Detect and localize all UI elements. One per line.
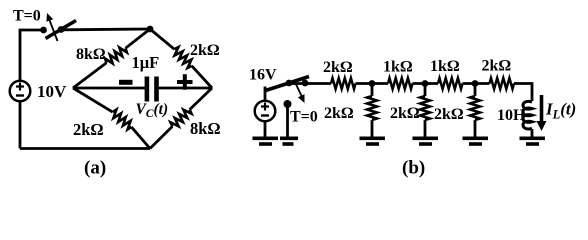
wire arm bottom-left: [73, 88, 150, 149]
switch S2 (b) blade: [264, 77, 309, 92]
wire top rail segment 2: [356, 82, 389, 85]
wire source bottom stub: [264, 121, 267, 137]
wire arm bottom-right: [150, 88, 212, 149]
wire arm top-left: [73, 29, 150, 88]
wire top rail segment 3: [413, 82, 439, 85]
resistor 8kΩ bottom-right: [171, 110, 192, 127]
svg-text:2kΩ: 2kΩ: [434, 106, 464, 123]
svg-text:8kΩ: 8kΩ: [76, 46, 106, 63]
wire arm top-right: [150, 29, 212, 88]
resistor 2kΩ series 4: [490, 78, 515, 89]
wire bottom rail (a): [20, 147, 150, 150]
switch S1 (a) blade: [46, 21, 77, 39]
switch S1 contact dot right: [58, 26, 65, 33]
switch S2 (b) motion arrow: [294, 80, 305, 103]
capacitor C1 1μF plates: [145, 77, 159, 102]
svg-text:8kΩ: 8kΩ: [190, 119, 221, 138]
node dot on grounded throw wire: [284, 100, 292, 108]
voltage source V2 16V: [255, 101, 276, 122]
svg-text:IL(t): IL(t): [545, 100, 576, 122]
wire grounded throw of switch: [286, 104, 289, 137]
wire source top stub: [264, 87, 267, 101]
switch S2 contact dot left: [286, 80, 293, 87]
inductor L1 10H: [523, 101, 532, 129]
wire capacitor branch left: [73, 87, 145, 90]
svg-text:1kΩ: 1kΩ: [430, 58, 460, 75]
resistor 2kΩ bottom-left: [113, 110, 132, 130]
wire capacitor branch right: [159, 87, 212, 90]
svg-text:1kΩ: 1kΩ: [383, 59, 413, 76]
ground under shunt 2: [413, 137, 439, 146]
svg-text:10H: 10H: [497, 107, 526, 124]
label minus sign: [119, 80, 133, 85]
wire left vertical (a) top part: [19, 30, 22, 149]
resistor 2kΩ shunt 1: [367, 86, 377, 137]
svg-text:2kΩ: 2kΩ: [390, 105, 420, 122]
switch S1 (a) motion arrow: [46, 13, 57, 41]
node dot junction 1: [369, 80, 376, 87]
switch S1 contact dot left: [40, 27, 47, 34]
ground under shunt 3: [463, 137, 489, 146]
resistor 2kΩ shunt 2: [420, 86, 430, 137]
ground under inductor: [520, 137, 546, 146]
svg-text:(a): (a): [84, 158, 106, 179]
svg-text:(b): (b): [402, 158, 425, 179]
switch S2 contact dot right: [302, 80, 309, 87]
node dot junction 3: [472, 80, 479, 87]
svg-text:2kΩ: 2kΩ: [190, 42, 220, 59]
resistor 1kΩ series 2: [388, 78, 413, 89]
svg-text:T=0: T=0: [290, 109, 318, 126]
ground under source: [253, 137, 279, 146]
wire switch to diamond top: [61, 28, 150, 32]
resistor 2kΩ series 1: [331, 78, 356, 89]
svg-text:1μF: 1μF: [132, 53, 160, 72]
label plus sign: [177, 74, 193, 90]
resistor 2kΩ top-right: [174, 47, 191, 68]
svg-text:2kΩ: 2kΩ: [324, 105, 354, 122]
ground under switch throw: [280, 137, 298, 146]
resistor 1kΩ series 3: [438, 78, 463, 89]
node dot junction 2: [422, 80, 429, 87]
voltage source V1 10V: [10, 81, 31, 102]
svg-text:2kΩ: 2kΩ: [73, 120, 104, 139]
node top vertex dot: [147, 26, 154, 33]
current arrow IL(t): [537, 95, 547, 131]
svg-text:2kΩ: 2kΩ: [482, 58, 512, 75]
svg-text:2kΩ: 2kΩ: [323, 59, 353, 76]
wire inductor bottom stub: [531, 129, 534, 137]
svg-text:16V: 16V: [249, 67, 277, 84]
wire top-left to switch: [20, 30, 44, 31]
wire top rail segment 5 to right corner: [514, 84, 532, 102]
wire top rail segment 4: [463, 82, 490, 85]
resistor 2kΩ shunt 3: [470, 86, 480, 137]
svg-text:10V: 10V: [37, 82, 67, 101]
svg-text:T=0: T=0: [13, 8, 41, 25]
resistor 8kΩ top-left: [105, 48, 127, 64]
ground under shunt 1: [360, 137, 386, 146]
wire top rail segment 1: [289, 82, 331, 85]
